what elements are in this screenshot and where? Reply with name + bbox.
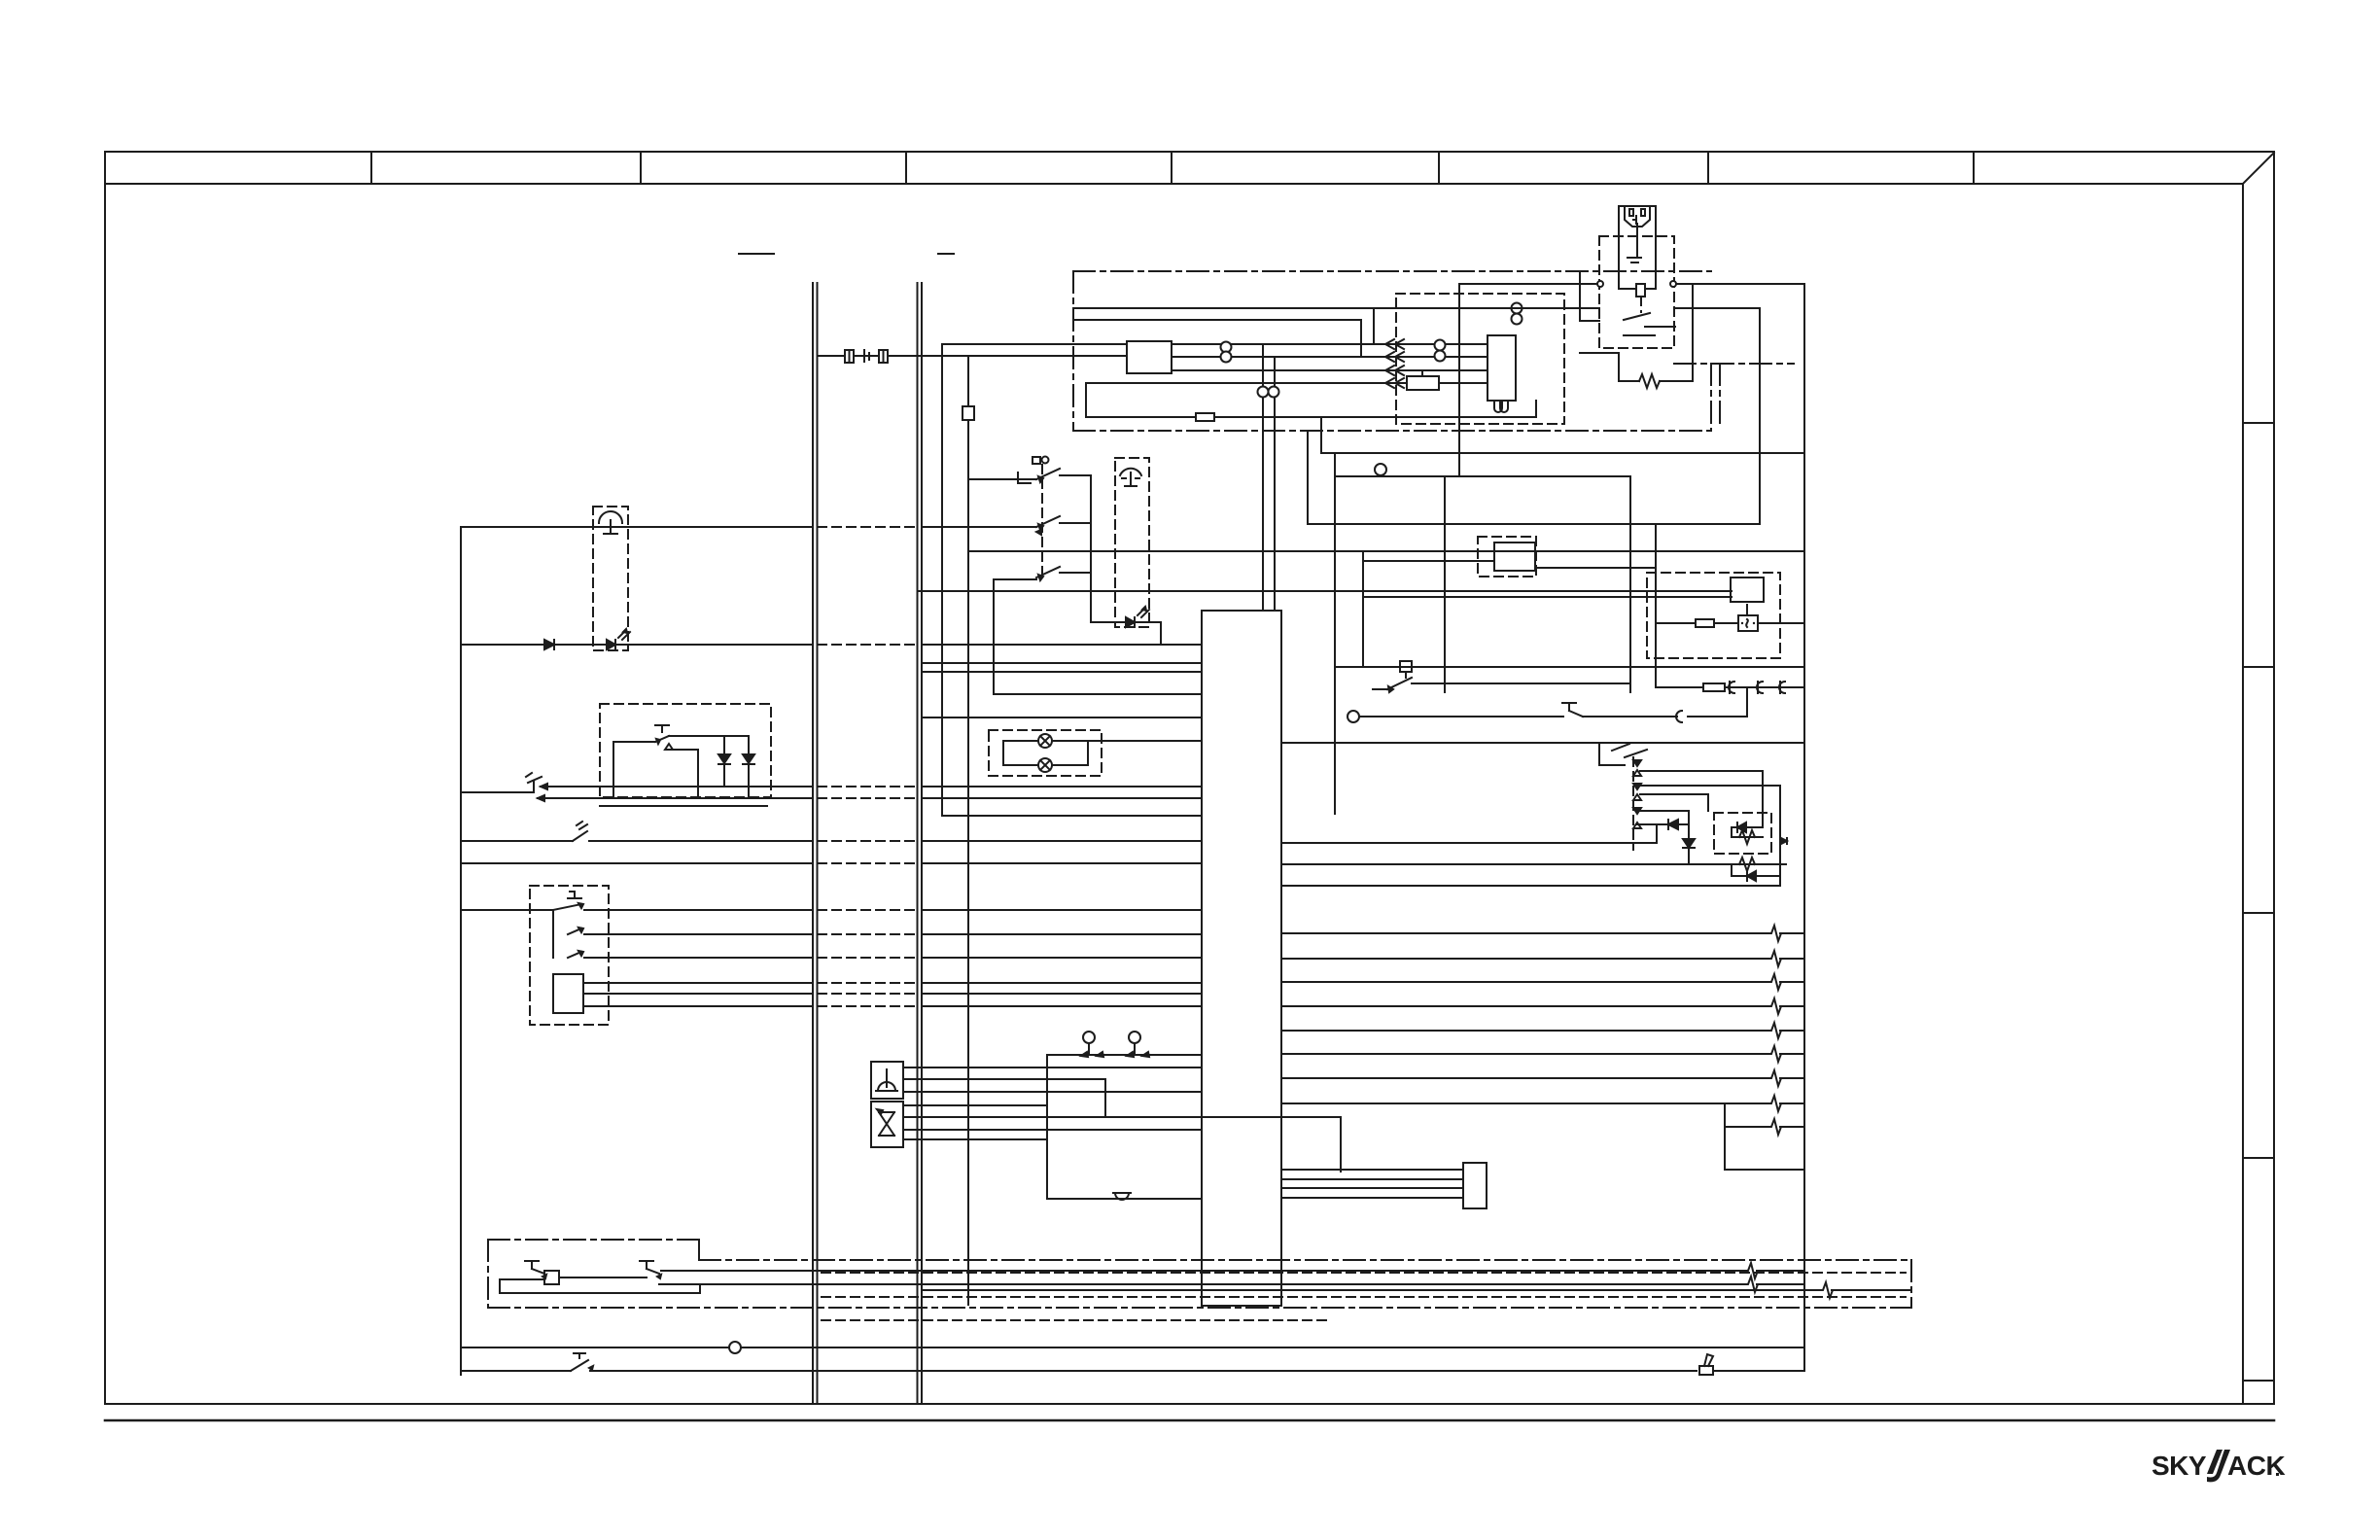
shunt tap riser xyxy=(1421,370,1423,376)
riser 996 xyxy=(967,356,969,1305)
wire row to module y936 xyxy=(922,909,1202,911)
field wire row y1159 xyxy=(1725,1126,1770,1128)
hold switch block xyxy=(1400,661,1412,672)
dash-dot tail right xyxy=(1674,363,1794,365)
dashed harness row C xyxy=(822,1319,1332,1321)
switch T2 blade xyxy=(568,928,581,934)
wire row 709 left xyxy=(1373,688,1387,690)
bus jumper dashed row y663 xyxy=(818,644,917,646)
hold switch blade xyxy=(1387,678,1412,689)
header cell divider 1 xyxy=(370,152,372,184)
bus J2 right line xyxy=(921,283,923,1404)
column switch A contact xyxy=(1018,472,1031,483)
module harness row y1222 xyxy=(1281,1187,1463,1189)
keyswitch ring xyxy=(1375,464,1386,475)
wire row long 764 xyxy=(1281,742,1804,744)
control module ECU body xyxy=(1202,611,1281,1306)
wire row platform-1 xyxy=(461,526,812,528)
wire row sensor link xyxy=(1091,621,1161,623)
wire row K-left pin1 xyxy=(583,982,812,984)
hour meter dashed box xyxy=(1647,573,1780,658)
wire row LS1 out upper xyxy=(541,786,812,787)
charger main drop xyxy=(1458,284,1460,476)
key feed riser left xyxy=(1334,453,1336,814)
joystick symbol 1 xyxy=(1083,1032,1095,1043)
wire row motor feed 354 xyxy=(1172,343,1487,345)
valve riser 1757 xyxy=(1707,794,1709,811)
charger drop riser xyxy=(1759,308,1761,524)
switch column head xyxy=(1032,457,1040,464)
hour meter body xyxy=(1731,577,1764,602)
riser 1797 xyxy=(1746,687,1748,717)
right margin fold tick 2 xyxy=(2243,666,2274,668)
indicator lamp 2 xyxy=(1003,764,1038,766)
dash-dot enclosure bottom top edge B xyxy=(699,1259,1911,1261)
diode D-left on row xyxy=(544,640,554,649)
wire row valve pin2 xyxy=(903,1116,1341,1118)
interlock diode 1 xyxy=(723,736,725,787)
connector 8 pair risers xyxy=(1258,387,1269,398)
wire row to module y663 xyxy=(922,644,1202,646)
wire row valve pin3 xyxy=(903,1129,1202,1131)
ground symbol xyxy=(1627,257,1641,259)
column switch B out xyxy=(1060,522,1091,524)
wire row to module y985 xyxy=(922,957,1202,959)
column switch A feed xyxy=(968,478,1036,480)
wire row mid a xyxy=(1308,523,1760,525)
lamp internal riser xyxy=(1002,741,1004,765)
line fuse 707 xyxy=(1703,683,1725,691)
svg-text:ACK: ACK xyxy=(2227,1451,2285,1481)
wire row T3 out xyxy=(584,957,812,959)
dash-dot enclosure charger top xyxy=(1073,270,1711,272)
field wire row y1035 xyxy=(1281,1005,1770,1007)
diode on row 848 xyxy=(1668,820,1678,829)
charger dashed drop xyxy=(1640,297,1642,312)
connector 8 pair C xyxy=(1512,303,1522,314)
cluster dashed drop xyxy=(1632,757,1634,850)
wire row long 686 xyxy=(1335,666,1804,668)
pothole link wire xyxy=(559,1277,647,1278)
motor output riser xyxy=(1535,401,1537,417)
header cell divider 6 xyxy=(1707,152,1709,184)
interlock switch blade xyxy=(655,736,669,742)
wire feeder row a xyxy=(1073,307,1599,309)
wire row platform-2 xyxy=(461,644,812,646)
wire row motor feed 394b xyxy=(1439,382,1487,384)
pothole bypass loop xyxy=(500,1278,544,1280)
dashed enclosure control box left xyxy=(530,886,609,1025)
battery fuse riser xyxy=(1320,417,1322,453)
interlock bottom row xyxy=(600,805,767,807)
riser 1704 xyxy=(1656,824,1658,843)
column switch A out xyxy=(1060,474,1091,476)
wire bus crossbar xyxy=(818,355,1128,357)
bus jumper dashed row y865 xyxy=(818,840,917,842)
wire row v817 xyxy=(1640,793,1708,795)
charger terminal left xyxy=(1597,281,1603,287)
bus J2 left line xyxy=(917,283,919,1404)
wire row motor feed 381 xyxy=(1172,369,1487,371)
feeder riser b xyxy=(1360,320,1362,357)
field wire row y1327 xyxy=(922,1289,1822,1291)
wire row y738 xyxy=(922,717,1202,718)
left feeder rail xyxy=(460,527,462,1375)
wire row sensor return xyxy=(1047,1198,1202,1200)
field wire row y960 xyxy=(1281,932,1770,934)
bus jumper dashed row y542 xyxy=(818,526,917,528)
wire row valve pin4 xyxy=(903,1138,1047,1140)
shunt resistor block xyxy=(1407,376,1439,390)
wire charger top link xyxy=(1675,307,1760,309)
interlock NC contact xyxy=(665,744,673,750)
drawing border outer right edge xyxy=(2273,153,2275,1404)
sensor out riser xyxy=(1160,622,1162,645)
lamp enclosure dashed xyxy=(989,730,1102,776)
wire row to module y821 xyxy=(922,797,1202,799)
bus jumper dashed row y985 xyxy=(818,957,917,959)
wire row v867 xyxy=(1281,842,1657,844)
field wire row y1203b xyxy=(1725,1169,1804,1171)
collector riser 1122 xyxy=(1090,475,1092,622)
wire row to module y1035 xyxy=(922,1005,1202,1007)
battery return riser xyxy=(1085,383,1087,417)
contact arc 707 c xyxy=(1779,682,1785,693)
cluster arrow marks xyxy=(1633,770,1641,776)
wire row joystick feed xyxy=(1047,1054,1202,1056)
field wire row y1010 xyxy=(1281,981,1770,983)
drawing border bottom edge xyxy=(105,1403,2274,1405)
wire row y839 xyxy=(942,815,1202,817)
dash-dot enclosure bottom top edge A xyxy=(488,1239,699,1241)
connector 8 pair B xyxy=(1435,340,1446,351)
wire row T2 out xyxy=(584,933,812,935)
wire row brake out xyxy=(590,1370,1697,1372)
wire row y682 xyxy=(922,662,1202,664)
wire row R1 feed xyxy=(942,343,1127,345)
valve riser 1813 xyxy=(1762,771,1764,827)
horn unit body xyxy=(871,1062,903,1099)
wire row K-left pin2 xyxy=(583,993,812,995)
wire row lamp test xyxy=(994,693,1202,695)
valve riser 1831 xyxy=(1779,786,1781,886)
bus jumper dashed row y809 xyxy=(818,786,917,787)
relay feed riser xyxy=(1362,551,1364,667)
right margin fold tick 3 xyxy=(2243,912,2274,914)
right trunk riser xyxy=(1803,284,1805,1371)
mid riser 1486 xyxy=(1444,476,1446,692)
column switch C lower contact xyxy=(994,578,1036,580)
reference dash mark right xyxy=(938,253,954,255)
charger feed riser xyxy=(1579,272,1581,321)
sensor dashed box right xyxy=(1115,458,1149,627)
bus jumper dashed row y961 xyxy=(818,933,917,935)
control box feed row xyxy=(461,909,553,911)
connector 8 pair A xyxy=(1221,342,1232,353)
right margin fold tick 5 xyxy=(2243,1380,2274,1382)
wire row 737 xyxy=(1359,716,1563,717)
field wire row y1109 xyxy=(1281,1077,1770,1079)
field wire row y1084 xyxy=(1281,1053,1770,1055)
interlock left riser xyxy=(612,742,614,798)
wire row relay feed xyxy=(1363,560,1494,562)
module top pin riser B xyxy=(1274,357,1276,611)
wire row LS2 out xyxy=(461,840,573,842)
wire row bus tap xyxy=(918,590,1732,592)
plug cord xyxy=(1636,224,1638,257)
switch T1 blade xyxy=(553,904,581,910)
module harness row y1213 xyxy=(1281,1178,1463,1180)
tilt sensor symbol xyxy=(599,511,622,523)
limit switch LS2 xyxy=(573,831,587,841)
header cell divider 7 xyxy=(1973,152,1975,184)
drawing border left edge xyxy=(104,152,106,1404)
LED indicator left xyxy=(607,640,615,649)
field wire row y911 xyxy=(1281,885,1780,887)
wire row to module y809 xyxy=(922,786,1202,787)
wire row pothole upper xyxy=(661,1270,1747,1272)
plug receptacle body xyxy=(1619,206,1656,289)
dash-dot enclosure bottom left edge xyxy=(487,1240,489,1308)
column switch C out xyxy=(1060,572,1091,574)
reference dash mark left xyxy=(739,253,774,255)
dashed enclosure interlock xyxy=(600,704,771,797)
wire row motor feed 394 xyxy=(1086,382,1407,384)
wire row v834 xyxy=(1640,810,1689,812)
start ring xyxy=(1347,711,1359,722)
wire row brake tail xyxy=(1713,1370,1804,1372)
relay dashed box mid xyxy=(1478,537,1536,577)
wire charger feed left xyxy=(1459,283,1597,285)
wire row LS1 out lower xyxy=(538,797,812,799)
drawing border outer top line xyxy=(105,151,2274,153)
interlock feed row xyxy=(613,741,655,743)
dashed harness row A xyxy=(822,1272,1906,1274)
pothole switch PS1 head xyxy=(531,1261,533,1269)
interlock switch head xyxy=(655,724,669,726)
brake switch xyxy=(571,1360,588,1371)
wire row v889 xyxy=(1281,863,1786,865)
switch T3 blade xyxy=(568,952,581,958)
module harness row y1203 xyxy=(1281,1169,1463,1171)
wire row 737 right xyxy=(1583,716,1677,717)
wire row horn pin2 xyxy=(903,1078,1105,1080)
interlock diode 2 xyxy=(748,736,750,798)
drawing border top-right corner diagonal xyxy=(2243,153,2274,184)
wire row to module y1022 xyxy=(922,993,1202,995)
battery return row xyxy=(1086,416,1536,418)
contact arc 737 xyxy=(1676,711,1682,722)
wire row horn pin1 xyxy=(903,1067,1202,1068)
resistor diode pair upper xyxy=(1731,827,1732,837)
switch column dashed link xyxy=(1041,465,1043,577)
series resistor on return row xyxy=(1196,413,1214,421)
right margin fold tick 1 xyxy=(2243,422,2274,424)
valve riser 1737 xyxy=(1688,811,1690,864)
charger dashed box xyxy=(1599,236,1674,348)
module top pin riser A xyxy=(1262,344,1264,611)
contact arc 707 a xyxy=(1729,682,1734,693)
header cell divider 3 xyxy=(905,152,907,184)
wire feeder row b xyxy=(1073,319,1361,321)
dash-dot enclosure bottom bottom edge xyxy=(488,1307,1911,1309)
dash-dot drop right xyxy=(1719,364,1721,426)
drawing border inner right edge xyxy=(2242,184,2244,1404)
cluster switch feed xyxy=(1599,764,1625,766)
pressure cup symbol xyxy=(1113,1192,1131,1194)
motor brushes xyxy=(1494,401,1508,412)
bus jumper dashed row y1035 xyxy=(818,1005,917,1007)
valve unit body xyxy=(871,1102,903,1147)
field wire row y1135 xyxy=(1281,1102,1770,1104)
wire row to module y865 xyxy=(922,840,1202,842)
diode on riser 1737 xyxy=(1683,839,1695,848)
cluster switch blade xyxy=(1625,750,1647,757)
wire row to module y1011 xyxy=(922,982,1202,984)
header cell divider 5 xyxy=(1438,152,1440,184)
wire row 737 tail xyxy=(1688,716,1747,717)
pothole switch PS1 contact box xyxy=(544,1271,559,1284)
brake switch stub xyxy=(461,1370,571,1372)
mid riser xyxy=(1655,524,1657,687)
harness plug body xyxy=(1463,1163,1487,1208)
feeder riser a xyxy=(1373,308,1375,344)
field wire row y1060 xyxy=(1281,1030,1770,1032)
wire row top long xyxy=(1321,452,1804,454)
wire row horn pin3 xyxy=(903,1091,1202,1093)
bus jumper dashed row y888 xyxy=(818,862,917,864)
tilt sensor symbol right xyxy=(1120,469,1141,475)
dash-dot enclosure charger right xyxy=(1710,364,1712,431)
charger feed link xyxy=(1580,320,1599,322)
dashed enclosure tilt sensor left xyxy=(593,507,628,650)
column switch B blade xyxy=(1036,516,1060,527)
SKYJACK logo xyxy=(2152,1450,2285,1482)
wire row T1 out xyxy=(584,909,812,911)
toggle symbol right xyxy=(1699,1366,1713,1375)
svg-text:SKY: SKY xyxy=(2152,1451,2207,1481)
limit switch LS1 xyxy=(533,781,535,792)
wire row v808 xyxy=(1640,785,1780,787)
indicator lamp 1 xyxy=(1003,740,1038,742)
meter drop xyxy=(1746,605,1748,615)
wire row motor feed 367 xyxy=(1172,356,1487,358)
header cell divider 2 xyxy=(640,152,642,184)
dash-dot enclosure charger bottom xyxy=(1073,430,1711,432)
wire row valve pin1 xyxy=(903,1104,1047,1106)
charger interlock switch xyxy=(1624,313,1650,320)
diode mark right xyxy=(1781,838,1787,844)
field wire row y986 xyxy=(1281,958,1770,960)
wire row to module y961 xyxy=(922,933,1202,935)
wire row y691 xyxy=(922,671,1202,673)
wire row v793 xyxy=(1640,770,1763,772)
bus jumper dashed row y821 xyxy=(818,797,917,799)
wire row to module y888 xyxy=(922,862,1202,864)
wire row meter feed xyxy=(1363,596,1732,598)
flasher unit xyxy=(1738,615,1758,631)
wire row meter link xyxy=(1656,622,1696,624)
fuse F2 xyxy=(962,406,974,420)
charger terminal right xyxy=(1670,281,1676,287)
bus J1 right line xyxy=(817,283,819,1404)
wire row 707 right xyxy=(1656,686,1804,688)
dashed harness row B xyxy=(822,1296,1906,1298)
riser valve pin2 xyxy=(1340,1117,1342,1172)
module crossover row xyxy=(1105,1116,1341,1118)
column switch A blade xyxy=(1036,469,1060,479)
wire row ground return xyxy=(461,1347,1804,1348)
terminal ring on ground row xyxy=(729,1342,741,1353)
horn symbol xyxy=(886,1069,888,1087)
charger fuse block xyxy=(1636,284,1645,297)
wire row 709 mid xyxy=(1412,682,1630,684)
field riser collector xyxy=(1724,1103,1726,1170)
toggle switch T1 head xyxy=(570,891,575,892)
connector P2 on crossbar xyxy=(879,350,888,363)
interlock out row lower xyxy=(673,749,698,751)
wire row aux xyxy=(461,862,812,864)
relay K-left body xyxy=(553,974,583,1013)
LED indicator right xyxy=(1126,617,1135,627)
wire row v848 xyxy=(1636,823,1689,825)
footer separator rule xyxy=(105,1419,2274,1422)
plug face xyxy=(1625,206,1650,227)
column switch C blade xyxy=(1036,567,1060,577)
meter fuse xyxy=(1696,619,1714,627)
inline break on crossbar xyxy=(864,350,869,362)
resistor heater squiggle xyxy=(1618,353,1620,381)
tswitch mid head xyxy=(1568,703,1570,711)
dash-dot enclosure step xyxy=(698,1240,700,1260)
right margin fold tick 4 xyxy=(2243,1157,2274,1159)
joystick symbol 2 xyxy=(1129,1032,1140,1043)
valve symbol xyxy=(879,1112,894,1136)
pump motor body xyxy=(1487,335,1516,401)
interlock right drop xyxy=(697,750,699,798)
wire row platform select feed xyxy=(922,526,1036,528)
wire row pothole lower xyxy=(659,1283,1747,1285)
bus J1 left line xyxy=(812,283,814,1404)
bus jumper dashed row y936 xyxy=(818,909,917,911)
motor feed arrows xyxy=(1385,339,1394,349)
pothole switch PS2 head xyxy=(646,1261,647,1269)
relay body mid xyxy=(1494,542,1535,571)
riser 969 xyxy=(941,344,943,816)
wire row mid long xyxy=(968,550,1804,552)
contact arc 707 b xyxy=(1757,682,1763,693)
drawing border header bottom line xyxy=(105,183,2243,185)
header cell divider 4 xyxy=(1171,152,1172,184)
connector P1 on crossbar xyxy=(845,350,854,363)
wire charger feed right xyxy=(1676,283,1804,285)
resistor diode pair lower xyxy=(1731,864,1732,876)
control box internal bus xyxy=(552,910,554,958)
drop riser 1022 xyxy=(993,579,995,694)
valve dashed box right xyxy=(1714,813,1771,854)
contactor dashed box xyxy=(1396,294,1564,424)
wire row relay out xyxy=(1535,567,1656,569)
riser horn pin2 xyxy=(1104,1079,1106,1117)
wire row key feed xyxy=(1335,475,1630,477)
key feed riser right xyxy=(1629,476,1631,692)
interlock out row upper xyxy=(669,735,749,737)
collector riser left xyxy=(1046,1055,1048,1199)
resistor feed stub xyxy=(1580,352,1619,354)
mid riser 1345 xyxy=(1307,431,1309,524)
limit switch LS1 wire stub xyxy=(461,791,534,793)
wire row K-left pin3 xyxy=(583,1005,812,1007)
